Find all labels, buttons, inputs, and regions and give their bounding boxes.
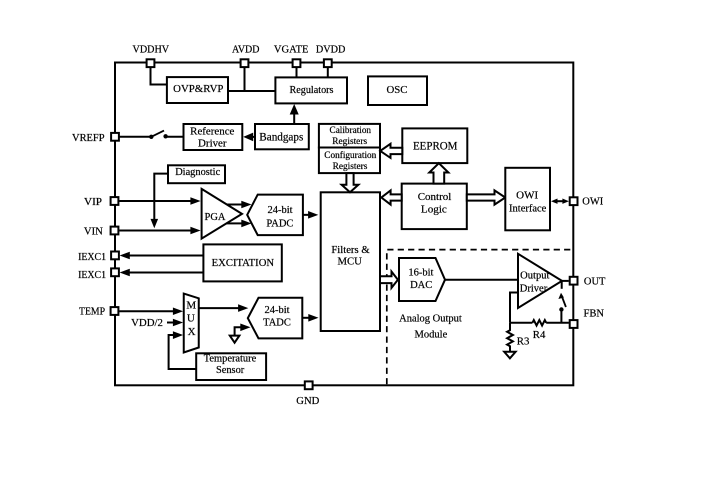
wire PGA to PADC lower xyxy=(226,222,242,224)
svg-text:OSC: OSC xyxy=(387,84,408,96)
svg-text:Configuration: Configuration xyxy=(324,150,376,161)
block Reference Driver xyxy=(184,124,243,150)
svg-text:Analog Output: Analog Output xyxy=(399,314,462,325)
svg-text:Sensor: Sensor xyxy=(216,365,245,376)
svg-text:Driver: Driver xyxy=(198,137,227,149)
wire TADC to Filters xyxy=(302,317,308,319)
svg-text:TEMP: TEMP xyxy=(79,307,105,318)
svg-text:Calibration: Calibration xyxy=(330,126,372,136)
svg-text:Bandgaps: Bandgaps xyxy=(259,132,303,144)
wire Diagnostic to VIN arrow xyxy=(154,174,168,220)
block 24-bit PADC xyxy=(247,195,303,236)
block Configuration Registers xyxy=(319,148,380,174)
svg-text:Output: Output xyxy=(520,271,549,282)
svg-text:Reference: Reference xyxy=(190,125,234,137)
wire Bandgaps to Regulators arrow xyxy=(293,113,295,124)
block OWI Interface xyxy=(505,168,550,231)
svg-text:IEXC1: IEXC1 xyxy=(78,252,106,263)
block EEPROM xyxy=(402,128,467,163)
block arrow Control Logic to EEPROM xyxy=(429,163,448,184)
block OSC xyxy=(368,76,427,105)
pin VGATE xyxy=(293,59,301,67)
wire VGATE drop xyxy=(296,68,298,78)
op-amp Output Driver xyxy=(518,254,562,308)
svg-text:OVP&RVP: OVP&RVP xyxy=(173,83,223,95)
wire VDD/2 to MUX xyxy=(167,322,173,324)
wire VDDHV to OVP&RVP xyxy=(151,68,167,85)
wire OWI Interface to OWI pin double arrow xyxy=(555,200,566,202)
op-amp PGA xyxy=(202,189,242,239)
wire MUX to TADC xyxy=(199,307,239,309)
svg-text:EXCITATION: EXCITATION xyxy=(212,258,275,269)
wire FBN line xyxy=(546,322,569,324)
svg-text:Temperature: Temperature xyxy=(204,354,257,365)
switch output feedback xyxy=(560,310,562,323)
svg-text:VDDHV: VDDHV xyxy=(133,45,170,56)
resistor R3 xyxy=(507,323,513,352)
pin GND xyxy=(305,381,313,389)
block EXCITATION xyxy=(203,244,281,281)
pin VDDHV xyxy=(147,59,155,67)
block Filters & MCU xyxy=(321,192,380,331)
wire DVDD drop xyxy=(327,68,329,78)
svg-text:VREFP: VREFP xyxy=(72,133,105,144)
pin IEXC1 upper xyxy=(111,252,119,260)
svg-text:Interface: Interface xyxy=(509,204,547,215)
pin TEMP xyxy=(111,307,119,315)
pin VIN xyxy=(111,227,119,235)
wire Temperature Sensor to MUX xyxy=(169,335,197,369)
svg-text:OWI: OWI xyxy=(516,191,539,202)
svg-text:PGA: PGA xyxy=(205,212,226,223)
block Control Logic xyxy=(402,184,467,230)
svg-text:IEXC1: IEXC1 xyxy=(78,270,106,281)
resistor R4 xyxy=(532,320,546,325)
block Temperature Sensor xyxy=(196,353,266,380)
wire VIN to PGA xyxy=(119,230,191,232)
pin OWI xyxy=(570,197,578,205)
wire DAC to Output Driver xyxy=(445,279,518,281)
dashed analog output module boundary xyxy=(387,250,573,385)
svg-text:TADC: TADC xyxy=(263,317,291,328)
block Calibration Registers xyxy=(319,124,380,148)
wire VIP to PGA xyxy=(119,200,191,202)
wire PGA to PADC upper xyxy=(227,204,242,206)
svg-text:R3: R3 xyxy=(517,335,530,347)
svg-text:VGATE: VGATE xyxy=(274,45,309,56)
switch VREFP xyxy=(120,136,152,138)
svg-text:Regulators: Regulators xyxy=(290,85,334,96)
svg-text:VDD/2: VDD/2 xyxy=(131,317,163,329)
pin OUT xyxy=(570,277,578,285)
svg-text:24-bit: 24-bit xyxy=(267,205,292,216)
svg-text:Module: Module xyxy=(415,330,448,341)
pin DVDD xyxy=(324,59,332,67)
pin AVDD xyxy=(241,59,249,67)
dac 16-bit DAC xyxy=(399,258,445,301)
chip outline box xyxy=(115,63,573,386)
block arrow registers to Filters xyxy=(342,173,359,192)
mux MUX xyxy=(184,294,199,353)
svg-text:Control: Control xyxy=(418,191,452,203)
block Diagnostic xyxy=(168,165,225,183)
block arrow EEPROM to registers xyxy=(380,144,402,158)
svg-text:DAC: DAC xyxy=(410,280,432,291)
svg-text:FBN: FBN xyxy=(584,309,605,320)
svg-text:OUT: OUT xyxy=(584,276,606,287)
wire Output Driver to OUT pin xyxy=(562,280,569,282)
svg-text:Logic: Logic xyxy=(421,204,447,216)
reference symbol into TADC xyxy=(235,327,241,335)
block OVP&RVP xyxy=(167,77,228,103)
svg-text:Diagnostic: Diagnostic xyxy=(175,167,220,178)
svg-text:16-bit: 16-bit xyxy=(408,268,433,279)
block arrow Control Logic to OWI Interface xyxy=(467,190,506,204)
pin VREFP xyxy=(111,133,119,141)
svg-text:Registers: Registers xyxy=(332,137,367,147)
svg-text:MCU: MCU xyxy=(338,255,363,267)
svg-text:Filters &: Filters & xyxy=(331,244,370,256)
svg-text:AVDD: AVDD xyxy=(232,45,260,56)
svg-text:PADC: PADC xyxy=(266,218,293,229)
wire OVP&RVP to Regulators xyxy=(228,90,275,92)
svg-text:VIP: VIP xyxy=(84,197,102,208)
block Regulators xyxy=(275,77,347,103)
svg-text:X: X xyxy=(188,326,196,338)
wire TEMP to MUX xyxy=(119,310,173,312)
svg-text:M: M xyxy=(186,299,196,311)
ground xyxy=(504,352,515,359)
wire EXCITATION to IEXC1 upper xyxy=(129,255,203,257)
svg-text:DVDD: DVDD xyxy=(316,45,346,56)
wire PADC to Filters xyxy=(303,214,309,216)
svg-text:OWI: OWI xyxy=(582,197,604,208)
wire AVDD drop xyxy=(244,68,246,91)
wire EXCITATION to IEXC1 lower xyxy=(129,272,203,274)
svg-text:VIN: VIN xyxy=(84,227,104,238)
arrow Bandgaps to Reference Driver xyxy=(251,136,255,138)
svg-text:Registers: Registers xyxy=(333,162,368,172)
pin FBN xyxy=(570,320,578,328)
svg-text:24-bit: 24-bit xyxy=(264,305,289,316)
block Bandgaps xyxy=(255,124,309,149)
svg-text:R4: R4 xyxy=(533,329,546,341)
svg-text:U: U xyxy=(187,313,195,325)
pin IEXC1 lower xyxy=(111,268,119,276)
pin VIP xyxy=(111,197,119,205)
svg-text:EEPROM: EEPROM xyxy=(413,138,458,152)
wire feedback to op-amp input xyxy=(510,293,518,323)
block arrow Control Logic to Filters xyxy=(381,190,401,204)
svg-text:Driver: Driver xyxy=(520,283,548,294)
svg-text:GND: GND xyxy=(296,396,319,407)
block 24-bit TADC xyxy=(248,298,302,339)
block arrow Filters to DAC xyxy=(380,272,398,288)
